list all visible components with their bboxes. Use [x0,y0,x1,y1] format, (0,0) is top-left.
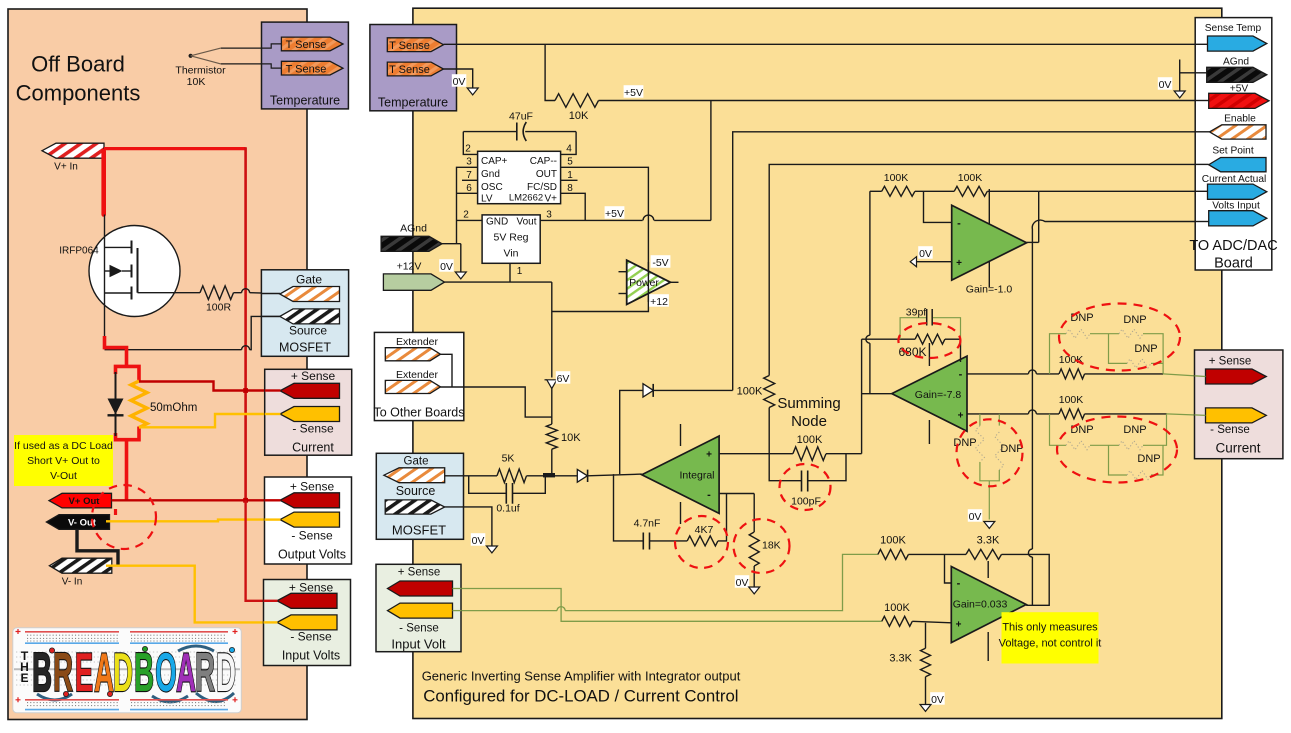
wire -1.0 output riser to Current Actual [1038,191,1040,242]
svg-text:- Sense: - Sense [291,529,333,543]
svg-text:100K: 100K [797,434,823,446]
wire Set Point rail [769,164,1208,375]
svg-text:Gain=-7.8: Gain=-7.8 [915,389,962,401]
wire 680K to - input [960,339,962,362]
diode D3 (gate drive) [577,469,587,482]
wire +5V rail drop [710,101,712,221]
resistor R10 680K (feedback) [862,338,916,340]
wire +sense from shunt (dark red) [139,382,280,391]
wire stub input volts +sense [264,600,278,602]
svg-text:39pf: 39pf [906,307,927,319]
connector V- Out [46,515,109,530]
to-other-boards connector box [374,332,463,420]
Q1 drain/source rail [104,215,106,338]
wire stub enable (ADC) [1195,131,1209,133]
wire Volts Input rail + riser from 0.033 output [1032,220,1208,549]
breadboard logo [13,628,242,713]
svg-text:E: E [20,671,28,685]
wire Vout +5V (hop over -5V drop) [540,219,642,221]
olive wire input volt -sense (hop) [453,610,558,612]
svg-text:CAP+: CAP+ [481,156,508,167]
svg-text:MOSFET: MOSFET [392,523,446,538]
wire stub current -sense (left) [265,413,281,415]
svg-text:Gate: Gate [404,455,429,467]
svg-text:0.1uf: 0.1uf [496,503,519,515]
op-amp U6 Gain=-1.0 [988,189,990,226]
wire -5V through power symbol [647,262,649,302]
Q1 drain tap [105,246,132,248]
svg-text:DNP: DNP [1123,314,1146,326]
connector +5V (ADC) [1209,93,1269,108]
temperature connector box (left panel) [262,22,349,109]
svg-text:Temperature: Temperature [378,96,448,110]
svg-text:3: 3 [546,209,552,220]
svg-text:Source: Source [396,484,436,498]
wire from -1.0 input chain down (hop over 680K row) [869,191,871,335]
label +5V [624,85,644,98]
input volts connector box (left panel) [264,580,351,666]
resistor R12 100K (current -sense) [1059,409,1085,419]
wire 100R to Gate connector (hop over V+ rail) [234,292,242,294]
wire Enable rail [733,132,1210,391]
node junction V+ out / rail [243,498,248,503]
wire -in to 4K7 [718,494,727,541]
wire -1.0 output [1027,241,1039,243]
svg-text:5: 5 [567,157,573,168]
svg-text:100K: 100K [884,602,910,614]
svg-text:Sense Temp: Sense Temp [1205,23,1262,34]
svg-text:Thermistor: Thermistor [175,65,226,77]
svg-text:+ Sense: + Sense [290,480,335,494]
input volt connector box (right panel) [376,564,461,651]
resistor R11 100K (current +sense) [1059,369,1085,379]
capacitor C3 4.7nF [650,540,688,542]
connector Current Actual [1208,184,1267,199]
op-amp U7 Gain=0.033 [987,561,989,578]
svg-text:100K: 100K [958,172,983,184]
svg-text:FC/SD: FC/SD [527,182,557,193]
dashed circle highlight V+/V- out [92,485,156,549]
svg-text:+ Sense: + Sense [1209,356,1252,368]
connector T Sense in (lower) [387,62,443,76]
zener diode Z1 6V [547,380,557,389]
resistor R13 100K (-1.0 input) [882,186,915,196]
svg-text:Current: Current [292,441,334,455]
diode D2 (enable clamp) [653,389,733,391]
resistor R3 10K (thermistor pullup) [555,94,599,108]
svg-text:E: E [75,643,93,704]
svg-text:Set Point: Set Point [1212,146,1254,157]
svg-text:Components: Components [16,81,141,106]
svg-text:3.3K: 3.3K [889,653,912,665]
svg-text:OUT: OUT [536,169,557,180]
connector AGnd (ADC) [1207,67,1267,82]
wire +12 riser [551,282,553,377]
svg-text:Enable: Enable [1224,114,1256,125]
svg-text:4K7: 4K7 [695,524,714,536]
svg-text:0V: 0V [969,511,982,523]
svg-text:-: - [959,369,963,381]
svg-text:LV: LV [481,193,493,204]
svg-text:- Sense: - Sense [290,630,332,644]
svg-text:Gnd: Gnd [481,169,500,180]
svg-text:DNP: DNP [1134,343,1157,355]
connector Gate (left MOSFET box) [280,287,340,302]
wire 5K to gate node [527,475,578,477]
wire gate arrow to 5K [445,475,497,477]
node junction +sense / V+ rail [243,388,248,393]
resistor R16 3.3K (0.033 feedback) [966,549,1002,559]
dashed circle highlight DNP mid [957,419,1023,486]
svg-text:10K: 10K [569,110,589,122]
svg-text:6: 6 [466,183,472,194]
connector + Sense (input volt right) [388,581,453,596]
svg-text:- Sense: - Sense [292,422,334,436]
svg-text:7: 7 [466,170,472,181]
svg-text:OSC: OSC [481,182,503,193]
svg-text:2: 2 [465,144,471,155]
connector Source (left MOSFET box) [280,309,340,324]
Q1 channel bar (dashed) [131,241,133,254]
wire stub input volts -sense [264,621,278,623]
wire V+ supply (thick red) from V+ In to MOSFET drain [101,151,106,215]
connector Set Point [1209,158,1266,172]
svg-text:100K: 100K [880,535,906,547]
wire T sense upper to Sense Temp (top rail) [444,43,1208,45]
svg-text:DNP: DNP [1000,443,1023,455]
svg-text:TO ADC/DAC: TO ADC/DAC [1189,238,1277,254]
resistor R9 100K (summing feedback) [769,453,793,455]
svg-text:T Sense: T Sense [389,64,430,76]
svg-text:Extender: Extender [396,336,439,348]
resistor R18 3.3K (0.033 +in pulldown) [925,623,927,649]
svg-text:3.3K: 3.3K [977,535,1000,547]
capacitor C4 100pF (parallel) [769,454,801,481]
MOSFET connector box (left panel) [261,270,348,357]
Q1 gate bar [137,248,139,293]
svg-text:DNP: DNP [1123,424,1146,436]
svg-text:-: - [957,218,961,230]
svg-text:1: 1 [517,266,523,277]
wire integral -in [719,493,754,495]
wire Vin pin [509,263,511,282]
connector V+ In [42,143,104,158]
IC U2 LM2662 [478,151,561,203]
svg-text:V+: V+ [544,193,557,204]
svg-text:Volts Input: Volts Input [1212,200,1260,211]
current sense connector box (left panel) [265,369,352,455]
DNP network (below -7.8) [979,414,981,426]
wire V+ rail to Input Volts +sense (dark red) [246,500,277,601]
wire source arrow to 0V [445,507,492,546]
dashed ellipse highlight DNP upper [1059,304,1180,371]
svg-text:5K: 5K [502,453,515,465]
svg-text:Generic Inverting Sense Amplif: Generic Inverting Sense Amplifier with I… [422,669,741,684]
dashed ellipse highlight DNP lower [1057,417,1177,483]
capacitor C2 0.1uf (parallel 5K) [469,476,507,494]
svg-text:Node: Node [791,413,827,430]
svg-text:+: + [956,258,962,269]
svg-text:AGnd: AGnd [400,223,427,235]
svg-text:1: 1 [567,170,573,181]
ground 0V (DNP) [968,509,983,522]
dashed ellipse highlight 680K [898,323,960,358]
resistor R7 4K7 [687,536,718,546]
resistor R15 100K (0.033 -in) [878,549,909,559]
Q1 body arrow [105,270,111,272]
wire stub sense temp (ADC) [1195,43,1207,45]
svg-text:0V: 0V [1159,79,1172,91]
svg-text:+: + [956,620,962,631]
wire 10K to gate node [551,449,553,475]
dashed circle highlight 100pF [780,464,831,510]
svg-text:+: + [706,449,712,460]
svg-text:4: 4 [566,144,572,155]
svg-text:-: - [707,489,711,501]
wire AGnd to 0V [1180,72,1207,74]
svg-text:10K: 10K [561,432,581,444]
connector + Sense (current) [280,383,340,398]
svg-text:- Sense: - Sense [1210,424,1250,436]
thermistor TH1 10K [189,54,193,58]
wire Q1 source to Source connector (hop over V+ rail) [105,349,242,351]
node shunt bottom (red loop) [116,427,140,440]
wire Current Actual rail [1039,190,1208,192]
short dash mark [114,509,117,515]
svg-text:6V: 6V [557,373,570,385]
svg-text:Input Volt: Input Volt [391,637,446,652]
svg-text:If used as a DC Load: If used as a DC Load [14,440,113,452]
pin 3/6 gnd tie [457,167,478,243]
current sense connector box (right panel) [1195,350,1283,459]
wire V- Out down (thick black) [77,529,118,565]
temperature connector box (right panel) [370,25,457,111]
wire integral +in to summing node [719,453,769,455]
off-board components panel [8,9,307,720]
svg-text:-: - [957,578,961,590]
svg-text:MOSFET: MOSFET [279,341,331,355]
wire AGnd node [442,243,461,245]
node shunt top (red loop) [116,366,140,382]
dashed circle highlight 4K7 [675,516,728,568]
svg-text:Off Board: Off Board [31,52,125,77]
power input stubs [619,271,627,273]
wire thermistor divider down [545,44,555,100]
svg-text:Source: Source [289,324,327,338]
svg-text:To Other Boards: To Other Boards [373,406,464,420]
svg-text:0V: 0V [453,76,466,88]
svg-text:CAP--: CAP-- [530,156,557,167]
svg-text:4.7nF: 4.7nF [634,518,661,530]
wire zener to 10K [551,389,553,425]
svg-text:LM2662: LM2662 [509,192,543,203]
svg-text:Gate: Gate [296,273,322,287]
svg-text:0V: 0V [472,535,485,547]
ADC/DAC connector box [1195,18,1272,270]
wire diode to integrator output [588,474,642,476]
op-amp U5 Gain=-7.8 [928,343,930,366]
svg-text:+5V: +5V [605,208,624,220]
connector + Sense (input volts) [277,593,337,608]
wire cap+ loop [463,132,477,155]
wire stub current -sense (right) [1195,414,1206,417]
svg-text:T Sense: T Sense [286,63,327,75]
wire stub source connector (left) [261,315,279,317]
svg-text:IRFP064: IRFP064 [59,246,99,257]
connector Extender (upper) [385,348,440,361]
svg-text:This only measures: This only measures [1002,622,1098,634]
resistor R5 10K (gate pulldown) [546,424,557,449]
connector Sense Temp [1208,36,1267,51]
wire thermistor to T Sense lower [221,64,282,68]
ground 0V (temp) [452,74,467,87]
svg-text:+ Sense: + Sense [398,567,441,579]
svg-text:100K: 100K [1059,394,1084,406]
svg-text:100K: 100K [1059,354,1084,366]
note: voltage measure only [1002,612,1099,663]
wire stub +5V (ADC) [1195,100,1209,102]
svg-text:O: O [155,643,176,704]
svg-text:Integral: Integral [679,469,714,481]
svg-text:+12V: +12V [397,261,422,273]
wire -7.8 output row [862,393,892,395]
wire stub current actual (ADC) [1195,190,1207,192]
svg-text:100K: 100K [884,172,909,184]
wire stub output volts -sense [265,518,281,520]
op-amp U4 Integral [680,424,682,446]
resistor R14 100K (-1.0 feedback) [915,190,954,192]
svg-text:DNP: DNP [1137,453,1160,465]
wire 4.7nF to integrator output [614,474,644,541]
svg-text:3: 3 [466,157,472,168]
svg-text:5V Reg: 5V Reg [493,231,528,243]
svg-text:Power: Power [629,277,659,289]
svg-text:0V: 0V [736,577,749,589]
svg-text:50mOhm: 50mOhm [150,402,197,414]
connector - Sense (output volts) [280,512,340,527]
wire T sense lower to 0V [444,69,473,88]
wire summing resistor to node [768,408,770,454]
wire feedback to output [1002,554,1050,605]
connector + Sense (current, right) [1206,369,1267,384]
MOSFET connector box (right panel) [376,453,463,539]
svg-text:Current Actual: Current Actual [1202,174,1267,185]
pin 7 stub [462,179,478,181]
svg-text:10K: 10K [187,76,206,88]
wire stub output volts +sense [265,499,281,501]
svg-text:+ Sense: + Sense [291,369,336,383]
wire -1.0 -in [924,191,952,222]
olive wire input volt +sense [453,589,882,622]
connector Enable [1210,125,1267,139]
amplifier board panel [413,8,1222,718]
label +12 [649,294,669,307]
connector Volts Input [1209,211,1267,226]
svg-text:V+ Out: V+ Out [69,496,101,507]
wire -7.8 +in row [967,413,1028,415]
svg-text:Vin: Vin [504,247,519,259]
wire stub set point (ADC) [1195,163,1209,165]
capacitor C5 39pf (parallel 680K, green wire) [900,318,926,340]
svg-text:V-Out: V-Out [50,470,77,482]
svg-text:Current: Current [1215,441,1260,456]
svg-text:100K: 100K [737,386,763,398]
dashed circle highlight 18K [734,519,790,573]
svg-text:AGnd: AGnd [1223,57,1249,68]
resistor R8 18K [749,532,759,566]
svg-text:Vout: Vout [516,216,536,227]
svg-text:-5V: -5V [652,257,668,269]
connector V- In [49,558,111,573]
svg-text:+12: +12 [650,296,668,308]
connector Extender (lower) [385,380,440,393]
svg-text:18K: 18K [762,540,781,552]
pin 1 stub [561,179,578,181]
wire diode to integrator output [620,390,643,474]
svg-text:GND: GND [486,216,508,227]
wire V+ branch to right rail [104,147,246,150]
wire 0.033 -in [945,554,952,583]
svg-text:Short V+ Out to: Short V+ Out to [27,455,100,467]
node gate drive junction [543,473,555,477]
svg-text:V- In: V- In [62,577,83,588]
svg-text:Voltage, not control it: Voltage, not control it [999,638,1102,650]
svg-text:+5V: +5V [624,87,643,99]
resistor R2 50mOhm shunt [131,381,147,428]
wire GND pin to AGnd [457,219,483,221]
wire stub gate connector (left) [261,293,280,295]
svg-text:Summing: Summing [777,395,840,412]
svg-text:Board: Board [1214,256,1253,272]
svg-text:B: B [32,643,52,704]
Q1 source tap [105,292,132,294]
svg-text:100pF: 100pF [791,496,821,508]
connector - Sense (input volts) [277,615,337,630]
svg-text:47uF: 47uF [509,111,533,123]
wire extender tie [441,354,453,387]
connector Gate out [384,468,445,483]
label -5V [651,255,671,268]
svg-text:- Sense: - Sense [399,623,439,635]
connector Source out [385,500,445,514]
resistor R6 5K [497,469,527,483]
power supply symbol (Power) [627,260,671,304]
svg-text:T Sense: T Sense [286,39,327,51]
svg-text:Extender: Extender [396,369,439,381]
connector V+ Out [49,493,112,508]
wire stub input volt -sense (right) [453,610,462,612]
svg-text:Configured for DC-LOAD / Curre: Configured for DC-LOAD / Current Control [423,687,738,706]
connector - Sense (input volt right) [388,603,453,618]
ground 0V (AGnd) [439,259,454,272]
wire stub current +sense (left) [265,389,281,391]
pin 5 OUT wire to -5V [552,167,649,311]
svg-text:100R: 100R [206,302,232,314]
wire -1.0 +in to 0V [917,261,952,263]
wire thick red shunt to V+ Out [125,440,129,500]
svg-text:V+ In: V+ In [54,162,78,173]
connector T Sense in (upper) [387,38,443,52]
wire -7.8 -in row [967,373,1028,375]
wire stub input volt +sense (right) [453,588,462,590]
connector - Sense (current, right) [1206,408,1267,423]
IC U3 5V regulator [482,215,540,263]
note: DC load shorting instructions [14,435,113,486]
wire -in to 18K [753,494,755,533]
wire V+ rail vertical (to V+ Out) [244,147,247,500]
svg-text:2: 2 [463,209,469,220]
wire cap- loop [561,132,577,155]
